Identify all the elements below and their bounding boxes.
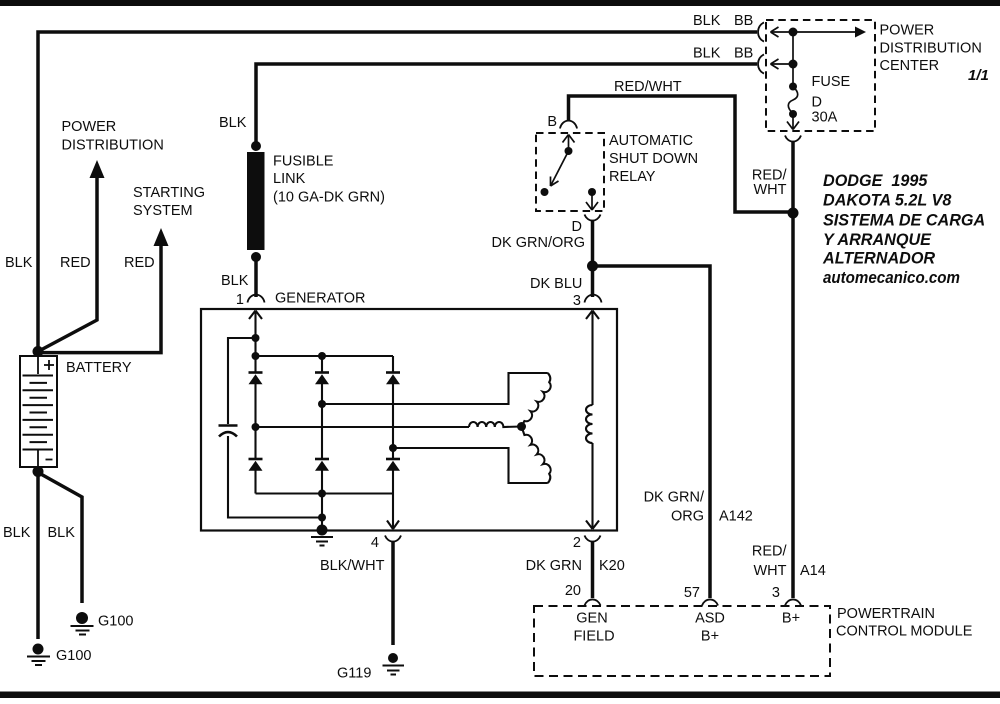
fusible link F1 [247, 152, 265, 250]
stator phase bottom wire [393, 448, 548, 483]
node bridge A top [252, 334, 260, 342]
label RED/WHT vertical upper [752, 168, 788, 199]
diode D2 top middle [315, 373, 329, 385]
svg-text:BLK: BLK [693, 13, 721, 29]
powertrain control module box [534, 606, 830, 676]
wire RED power distribution from battery [38, 174, 97, 352]
svg-text:BATTERY: BATTERY [66, 360, 132, 376]
svg-text:POWER: POWER [62, 119, 117, 135]
svg-text:DODGE 1995: DODGE 1995 [823, 172, 928, 190]
svg-text:DK GRN: DK GRN [526, 558, 582, 574]
svg-text:D: D [572, 219, 582, 235]
wire BLK fusible link to top bus row 2 [256, 64, 757, 146]
text block DODGE 1995 [822, 172, 985, 287]
node bridge B mid [318, 400, 326, 408]
label AUTOMATIC SHUT DOWN RELAY [609, 133, 698, 185]
svg-text:DISTRIBUTION: DISTRIBUTION [880, 41, 982, 57]
connector BB row 2 cup [758, 55, 764, 74]
svg-text:D: D [812, 95, 822, 111]
wire PDC internal bus with arrows [771, 27, 857, 87]
capacitor C1 [219, 426, 238, 437]
relay K1 internals [541, 135, 599, 211]
svg-text:3: 3 [772, 585, 780, 601]
junction node fusible link top [251, 141, 261, 151]
svg-text:BLK: BLK [48, 525, 76, 541]
svg-text:G119: G119 [337, 666, 371, 682]
svg-text:DAKOTA 5.2L V8: DAKOTA 5.2L V8 [823, 192, 951, 210]
node bridge B bus [318, 352, 326, 360]
svg-text:SISTEMA DE CARGA: SISTEMA DE CARGA [823, 211, 985, 229]
connector relay D cup [585, 215, 601, 221]
arrow to starting system [154, 228, 169, 246]
wire DK GRN generator pin 2 to PCM pin 20 [591, 541, 595, 598]
svg-text:BLK/WHT: BLK/WHT [320, 558, 385, 574]
svg-text:WHT: WHT [753, 563, 786, 579]
junction node RED/WHT splice [788, 208, 799, 219]
wire BLK battery to fusible link lower [254, 257, 258, 297]
relay automatic shut down box [536, 133, 604, 211]
connector PCM pin 57 cup [702, 599, 718, 605]
svg-text:1/1: 1/1 [968, 67, 989, 84]
node bridge A bus [252, 352, 260, 360]
svg-text:POWER: POWER [880, 23, 935, 39]
stator phase top wire [322, 373, 548, 404]
wire BLK battery negative to G100 lower [36, 470, 40, 639]
wire DK GRN/ORG junction to PCM pin 57 [593, 266, 711, 598]
stator coil top [522, 373, 551, 427]
svg-text:BLK: BLK [3, 525, 31, 541]
svg-text:ALTERNADOR: ALTERNADOR [822, 250, 935, 268]
node bridge A mid [252, 423, 260, 431]
svg-text:20: 20 [565, 583, 581, 599]
battery B1 [20, 356, 57, 467]
svg-text:G100: G100 [56, 648, 91, 664]
svg-text:FUSIBLE: FUSIBLE [273, 154, 334, 170]
svg-text:DK GRN/: DK GRN/ [644, 490, 705, 506]
svg-text:4: 4 [371, 535, 379, 551]
label ASD B+ [695, 611, 725, 645]
svg-text:CONTROL MODULE: CONTROL MODULE [836, 624, 973, 640]
label POWER DISTRIBUTION CENTER [880, 23, 982, 75]
svg-text:GEN: GEN [576, 611, 607, 627]
generator G1 box [201, 309, 617, 531]
svg-text:DISTRIBUTION: DISTRIBUTION [62, 138, 164, 154]
svg-text:RELAY: RELAY [609, 169, 656, 185]
svg-text:(10 GA-DK GRN): (10 GA-DK GRN) [273, 190, 385, 206]
node capacitor return [318, 514, 326, 522]
connector generator pin 2 cup [585, 536, 601, 542]
ground G119 [383, 653, 405, 675]
diode D1 top left [249, 373, 263, 385]
svg-text:WHT: WHT [753, 182, 786, 198]
stator phase middle wire [256, 426, 470, 428]
svg-text:RED: RED [60, 255, 91, 271]
svg-text:G100: G100 [98, 614, 133, 630]
svg-text:BB: BB [734, 46, 753, 62]
connector generator pin 1 cup [248, 295, 265, 303]
junction node PDC bus row 1 [789, 28, 798, 37]
ground G100 lower [27, 644, 50, 666]
label POWERTRAIN CONTROL MODULE [836, 606, 973, 640]
stator coil bottom [522, 427, 551, 484]
svg-text:B: B [547, 114, 557, 130]
wire RED/WHT relay B to junction [569, 96, 794, 212]
node bridge B bottom [318, 490, 326, 498]
svg-text:LINK: LINK [273, 171, 306, 187]
svg-text:3: 3 [573, 293, 581, 309]
svg-text:ORG: ORG [671, 509, 704, 525]
svg-text:FUSE: FUSE [812, 74, 851, 90]
svg-text:Y ARRANQUE: Y ARRANQUE [823, 231, 932, 249]
wire BLK battery negative to G100 upper [39, 473, 82, 603]
svg-text:B+: B+ [782, 611, 800, 627]
svg-text:BLK: BLK [5, 255, 33, 271]
node stator star point [517, 422, 526, 431]
wire BLK/WHT generator pin 4 to G119 [391, 541, 395, 645]
connector generator pin 4 cup [385, 536, 401, 542]
junction node battery negative [33, 466, 44, 477]
svg-text:FIELD: FIELD [573, 629, 614, 645]
svg-text:57: 57 [684, 585, 700, 601]
wire RED/WHT fuse output down to PCM pin 3 [791, 141, 795, 598]
connector generator pin 3 cup [585, 295, 602, 303]
diode D5 bottom middle [315, 459, 329, 471]
generator pin 2 arrow and field wire lower [586, 443, 599, 529]
svg-text:A14: A14 [800, 563, 826, 579]
generator pin 3 arrow and field wire [586, 311, 599, 406]
generator pin 1 arrow [249, 311, 262, 339]
connector PCM pin 3 cup [785, 599, 801, 605]
junction node PDC bus row 2 [789, 60, 798, 69]
svg-text:RED/WHT: RED/WHT [614, 79, 682, 95]
node bridge C mid [389, 444, 397, 452]
svg-text:POWERTRAIN: POWERTRAIN [837, 606, 935, 622]
svg-text:GENERATOR: GENERATOR [275, 291, 366, 307]
svg-text:RED: RED [124, 255, 155, 271]
junction node DK GRN/ORG splice [587, 261, 598, 272]
diode D4 bottom left [249, 459, 263, 471]
svg-text:BLK: BLK [221, 273, 249, 289]
connector PCM pin 20 cup [585, 599, 601, 605]
svg-text:RED/: RED/ [752, 544, 788, 560]
wire DK GRN/ORG relay D down to generator pin 3 [591, 220, 595, 297]
label RED/ WHT lower [752, 544, 788, 580]
arrow PDC feed right [855, 27, 866, 38]
svg-text:B+: B+ [701, 629, 719, 645]
svg-text:CENTER: CENTER [880, 58, 940, 74]
svg-text:DK GRN/ORG: DK GRN/ORG [492, 235, 585, 251]
svg-text:BLK: BLK [219, 115, 247, 131]
svg-text:DK BLU: DK BLU [530, 276, 582, 292]
diode D6 bottom right [386, 459, 400, 471]
connector BB row 1 cup [758, 23, 764, 42]
stator coil middle [469, 422, 522, 427]
fuse D 30A [787, 83, 799, 130]
svg-text:2: 2 [573, 535, 581, 551]
svg-text:BB: BB [734, 13, 753, 29]
svg-text:30A: 30A [812, 110, 838, 126]
connector fuse output cup [785, 136, 801, 142]
ground generator internal [311, 525, 333, 546]
junction node battery positive [33, 346, 44, 357]
svg-text:AUTOMATIC: AUTOMATIC [609, 133, 693, 149]
label FUSE D 30A [812, 74, 851, 126]
label GEN FIELD [573, 611, 614, 645]
connector relay B cup [560, 121, 577, 129]
junction node fusible link bottom [251, 252, 261, 262]
svg-text:SHUT DOWN: SHUT DOWN [609, 151, 698, 167]
svg-text:automecanico.com: automecanico.com [823, 269, 960, 287]
svg-text:A142: A142 [719, 509, 753, 525]
svg-text:ASD: ASD [695, 611, 725, 627]
ground G100 upper [71, 612, 94, 635]
wire RED starting system from battery [40, 242, 161, 353]
svg-text:1: 1 [236, 292, 244, 308]
svg-text:BLK: BLK [693, 46, 721, 62]
diode D3 top right [386, 373, 400, 385]
label DK GRN/ ORG vertical wire [644, 490, 705, 525]
arrow to power distribution [90, 160, 105, 178]
svg-text:STARTING: STARTING [133, 185, 205, 201]
svg-text:SYSTEM: SYSTEM [133, 203, 193, 219]
wire BLK battery to top bus [38, 32, 757, 350]
inductor field winding [586, 405, 593, 443]
rectifier bridge wiring [228, 338, 399, 530]
svg-text:K20: K20 [599, 558, 625, 574]
power distribution center box [766, 20, 875, 131]
